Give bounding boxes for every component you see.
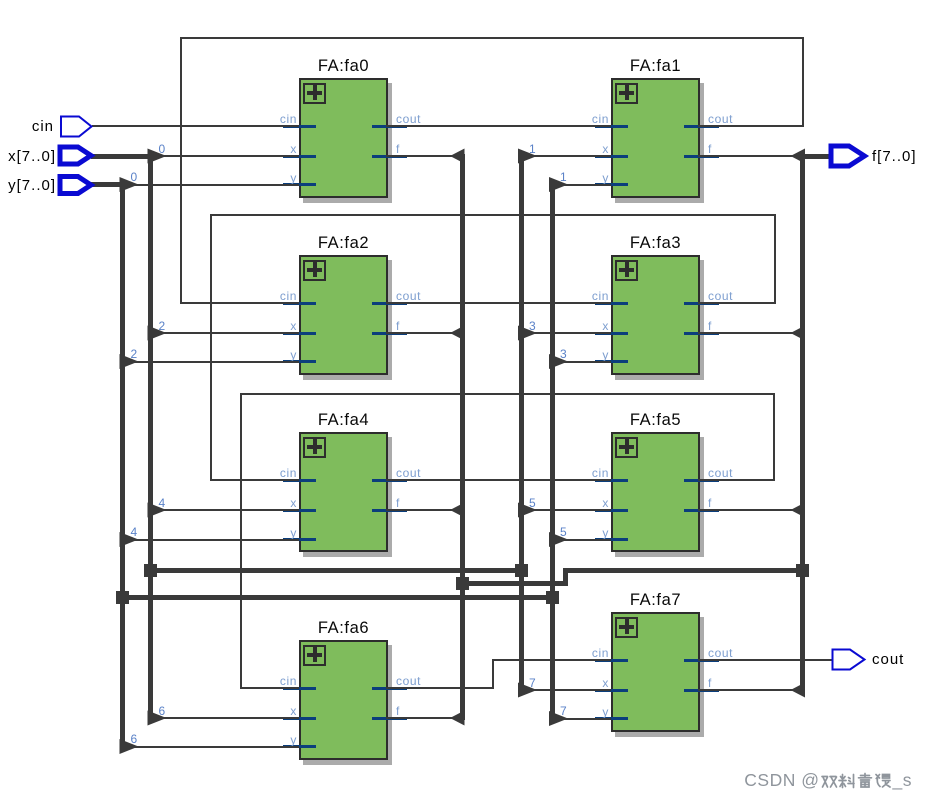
FA:fa4 pin label f <box>396 496 400 510</box>
bus: f horizontal link left part <box>460 581 569 586</box>
FA:fa3 pin x stub <box>595 332 628 335</box>
junction arrow x[6] <box>148 711 167 726</box>
junction: y bus right T <box>546 591 559 604</box>
net label y[3] <box>560 347 567 361</box>
pin label x[7..0] <box>8 149 56 164</box>
junction: x bus T <box>144 564 157 577</box>
wire: carry1 top segment <box>180 37 804 39</box>
junction arrow y[5] <box>549 532 568 547</box>
FA:fa4 pin label cin <box>280 466 297 480</box>
FA:fa7 pin label f <box>708 676 712 690</box>
FA:fa0 pin y stub <box>283 183 316 186</box>
FA:fa5 pin label cout <box>708 466 733 480</box>
wire: fa2.f to f collector <box>386 332 462 334</box>
wire: cin pin to fa0.cin <box>92 125 299 127</box>
FA:fa0 pin label cout <box>396 112 421 126</box>
FA:fa6 pin label x <box>290 704 297 718</box>
wire: carry6 to fa7.cin <box>492 659 611 661</box>
wire: f bus to f[7..0] pin (thick) <box>802 154 831 159</box>
FA:fa3 pin y stub <box>595 360 628 363</box>
bus: x[7..0] left vertical <box>148 154 153 721</box>
FA:fa0 adder + icon <box>303 83 326 104</box>
FA:fa3 adder + icon <box>615 260 638 281</box>
wire: fa7.cout to cout pin <box>698 659 833 661</box>
wire: x[7..0] pin to x bus junction (thick) <box>91 154 150 159</box>
FA:fa7 pin label cout <box>708 646 733 660</box>
net label y[2] <box>131 347 138 361</box>
wire: carry6 riser <box>492 659 494 689</box>
FA:fa0 pin x stub <box>283 155 316 158</box>
wire: fa0.cout to fa1.cin <box>386 125 611 127</box>
wire: carry3 left drop <box>210 214 212 481</box>
bus: x[7..0] right vertical <box>519 154 524 693</box>
wire: y[7] tap to fa7.y <box>552 718 611 720</box>
full adder FA:fa4 <box>299 432 388 552</box>
FA:fa1 adder + icon <box>615 83 638 104</box>
net label x[0] <box>159 142 166 156</box>
FA:fa2 pin y stub <box>283 360 316 363</box>
FA:fa2 pin label y <box>290 348 297 362</box>
FA:fa6 pin label cout <box>396 674 421 688</box>
FA:fa2 adder + icon <box>303 260 326 281</box>
FA:fa7 pin cout stub <box>684 659 719 662</box>
junction arrow f[4] <box>450 503 465 518</box>
bus: f horizontal link jog <box>563 568 568 587</box>
FA:fa7 pin label cin <box>592 646 609 660</box>
FA:fa1 pin x stub <box>595 155 628 158</box>
FA:fa1 pin cin stub <box>595 125 628 128</box>
FA:fa6 pin label f <box>396 704 400 718</box>
FA:fa7 pin label y <box>602 705 609 719</box>
input pin cin <box>61 117 92 137</box>
junction arrow y[7] <box>549 711 568 726</box>
wire: carry3 top segment <box>210 214 776 216</box>
output pin cout <box>833 650 865 670</box>
wire: fa1.f to f bus <box>698 155 803 157</box>
FA:fa1 title <box>630 57 681 76</box>
FA:fa4 adder + icon <box>303 437 326 458</box>
bus: x[7..0] horizontal link <box>148 568 524 573</box>
FA:fa6 pin f stub <box>372 717 407 720</box>
junction arrow x[3] <box>518 326 537 341</box>
FA:fa3 pin label x <box>602 319 609 333</box>
net label x[6] <box>159 704 166 718</box>
net label y[6] <box>131 732 138 746</box>
bus: y[7..0] right vertical <box>550 183 555 720</box>
bus: f horizontal link right part <box>563 568 805 573</box>
junction: x bus right T <box>515 564 528 577</box>
FA:fa6 pin label cin <box>280 674 297 688</box>
FA:fa7 pin x stub <box>595 689 628 692</box>
FA:fa4 title <box>318 411 369 430</box>
FA:fa6 adder + icon <box>303 645 326 666</box>
net label x[1] <box>529 142 536 156</box>
wire: fa1.cout riser <box>802 37 804 126</box>
FA:fa2 pin x stub <box>283 332 316 335</box>
FA:fa3 pin cin stub <box>595 302 628 305</box>
FA:fa7 pin cin stub <box>595 659 628 662</box>
net label x[3] <box>529 319 536 333</box>
FA:fa6 title <box>318 619 369 638</box>
net label y[5] <box>560 525 567 539</box>
FA:fa5 pin f stub <box>684 509 719 512</box>
FA:fa6 pin cin stub <box>283 687 316 690</box>
junction arrow f[1] <box>791 149 806 164</box>
FA:fa4 pin x stub <box>283 509 316 512</box>
wire: fa1.cout right segment <box>698 125 804 127</box>
FA:fa0 pin label cin <box>280 112 297 126</box>
FA:fa5 pin label x <box>602 496 609 510</box>
wire: x[1] tap to fa1.x <box>521 155 611 157</box>
pin label y[7..0] <box>8 178 56 193</box>
wire: y[7..0] pin to y bus junction (thick) <box>91 182 124 187</box>
FA:fa4 pin label x <box>290 496 297 510</box>
junction arrow x[5] <box>518 503 537 518</box>
wire: fa6.f to f collector <box>386 717 462 719</box>
FA:fa5 pin label cin <box>592 466 609 480</box>
junction arrow x[7] <box>518 683 537 698</box>
FA:fa1 pin y stub <box>595 183 628 186</box>
junction arrow x[1] <box>518 149 537 164</box>
FA:fa2 pin cout stub <box>372 302 407 305</box>
FA:fa3 pin label y <box>602 348 609 362</box>
FA:fa2 pin label cin <box>280 289 297 303</box>
wire: y[1] tap to fa1.y <box>552 184 611 186</box>
wire: fa0.f to f collector <box>386 155 462 157</box>
junction arrow f[2] <box>450 326 465 341</box>
junction: y bus T <box>116 591 129 604</box>
junction arrow f[3] <box>791 326 806 341</box>
wire: carry1 to fa2.cin <box>180 302 299 304</box>
FA:fa7 adder + icon <box>615 617 638 638</box>
wire: x[2] tap to fa2.x <box>151 332 300 334</box>
full adder FA:fa5 <box>611 432 700 552</box>
junction arrow y[1] <box>549 177 568 192</box>
wire: y[5] tap to fa5.y <box>552 539 611 541</box>
FA:fa5 pin cin stub <box>595 479 628 482</box>
FA:fa1 pin cout stub <box>684 125 719 128</box>
junction arrow y[2] <box>120 354 139 369</box>
wire: y[3] tap to fa3.y <box>552 361 611 363</box>
FA:fa4 pin cout stub <box>372 479 407 482</box>
FA:fa5 pin x stub <box>595 509 628 512</box>
junction arrow f[5] <box>791 503 806 518</box>
pin label cout <box>872 652 904 667</box>
wire: carry1 left drop <box>180 37 182 303</box>
FA:fa0 pin label y <box>290 171 297 185</box>
junction: f bus right T <box>796 564 809 577</box>
output pin f[7..0] <box>831 146 865 166</box>
wire: fa2.cout to fa3.cin <box>386 302 611 304</box>
wire: x[3] tap to fa3.x <box>521 332 611 334</box>
FA:fa5 pin label y <box>602 526 609 540</box>
FA:fa1 pin f stub <box>684 155 719 158</box>
junction arrow y[3] <box>549 354 568 369</box>
FA:fa2 pin cin stub <box>283 302 316 305</box>
FA:fa2 title <box>318 234 369 253</box>
FA:fa6 pin label y <box>290 733 297 747</box>
FA:fa2 pin label f <box>396 319 400 333</box>
watermark CSDN @shuangliao-dulang_s <box>744 770 912 791</box>
wire: fa3.cout right segment <box>698 302 776 304</box>
wire: fa3.cout riser <box>774 214 776 304</box>
FA:fa6 pin x stub <box>283 717 316 720</box>
wire: fa5.f to f bus <box>698 509 803 511</box>
FA:fa2 pin label cout <box>396 289 421 303</box>
wire: x[0] tap to fa0.x <box>151 155 300 157</box>
wire: fa5.cout right segment <box>698 479 775 481</box>
junction arrow f[7] <box>791 683 806 698</box>
full adder FA:fa3 <box>611 255 700 375</box>
bus: f left collector vertical <box>460 154 465 721</box>
FA:fa2 pin label x <box>290 319 297 333</box>
wire: y[0] tap to fa0.y <box>123 184 300 186</box>
FA:fa5 pin cout stub <box>684 479 719 482</box>
FA:fa1 pin label f <box>708 142 712 156</box>
FA:fa0 pin cout stub <box>372 125 407 128</box>
full adder FA:fa7 <box>611 612 700 732</box>
junction arrow y[6] <box>120 739 139 754</box>
full adder FA:fa0 <box>299 78 388 198</box>
junction: f bus T <box>456 577 469 590</box>
wire: y[4] tap to fa4.y <box>123 539 300 541</box>
wire: x[6] tap to fa6.x <box>151 717 300 719</box>
full adder FA:fa6 <box>299 640 388 760</box>
wire: x[4] tap to fa4.x <box>151 509 300 511</box>
junction arrow x[0] <box>148 149 167 164</box>
bus: y[7..0] left vertical <box>120 183 125 749</box>
net label x[5] <box>529 496 536 510</box>
net label y[1] <box>560 170 567 184</box>
FA:fa0 pin cin stub <box>283 125 316 128</box>
junction arrow x[4] <box>148 503 167 518</box>
FA:fa3 title <box>630 234 681 253</box>
wire: x[7] tap to fa7.x <box>521 689 611 691</box>
wire: y[6] tap to fa6.y <box>123 746 300 748</box>
net label x[2] <box>159 319 166 333</box>
FA:fa7 title <box>630 591 681 610</box>
FA:fa5 pin label f <box>708 496 712 510</box>
FA:fa5 title <box>630 411 681 430</box>
wire: fa3.f to f bus <box>698 332 803 334</box>
FA:fa7 pin y stub <box>595 717 628 720</box>
wire: fa6.cout right segment <box>386 687 494 689</box>
FA:fa1 pin label y <box>602 171 609 185</box>
FA:fa3 pin cout stub <box>684 302 719 305</box>
wire: fa4.f to f collector <box>386 509 462 511</box>
wire: y[2] tap to fa2.y <box>123 361 300 363</box>
FA:fa4 pin y stub <box>283 538 316 541</box>
FA:fa1 pin label cout <box>708 112 733 126</box>
FA:fa6 pin cout stub <box>372 687 407 690</box>
net label y[7] <box>560 704 567 718</box>
FA:fa5 pin y stub <box>595 538 628 541</box>
FA:fa3 pin label f <box>708 319 712 333</box>
FA:fa4 pin label cout <box>396 466 421 480</box>
FA:fa6 pin y stub <box>283 745 316 748</box>
FA:fa7 pin f stub <box>684 689 719 692</box>
bus: f right vertical to f[7..0] pin <box>800 154 805 693</box>
junction arrow f[6] <box>450 711 465 726</box>
FA:fa0 pin label x <box>290 142 297 156</box>
pin label cin <box>32 119 54 134</box>
FA:fa0 pin label f <box>396 142 400 156</box>
net label x[7] <box>529 676 536 690</box>
wire: fa4.cout to fa5.cin <box>386 479 611 481</box>
FA:fa0 title <box>318 57 369 76</box>
FA:fa0 pin f stub <box>372 155 407 158</box>
wire: carry5 left drop <box>240 393 242 689</box>
FA:fa3 pin label cout <box>708 289 733 303</box>
input pin x[7..0] <box>60 147 91 164</box>
junction arrow x[2] <box>148 326 167 341</box>
FA:fa3 pin f stub <box>684 332 719 335</box>
net label y[4] <box>131 525 138 539</box>
FA:fa7 pin label x <box>602 676 609 690</box>
FA:fa2 pin f stub <box>372 332 407 335</box>
junction arrow y[4] <box>120 532 139 547</box>
wire: carry5 top segment <box>240 393 776 395</box>
FA:fa1 pin label cin <box>592 112 609 126</box>
full adder FA:fa1 <box>611 78 700 198</box>
junction arrow f[0] <box>450 149 465 164</box>
pin label f[7..0] <box>872 149 917 164</box>
FA:fa4 pin label y <box>290 526 297 540</box>
bus: y[7..0] horizontal link <box>120 595 555 600</box>
junction arrow y[0] <box>120 177 139 192</box>
wire: carry3 to fa4.cin <box>210 479 299 481</box>
FA:fa5 adder + icon <box>615 437 638 458</box>
FA:fa4 pin f stub <box>372 509 407 512</box>
wire: fa7.f to f bus <box>698 689 803 691</box>
FA:fa3 pin label cin <box>592 289 609 303</box>
input pin y[7..0] <box>60 177 91 194</box>
wire: x[5] tap to fa5.x <box>521 509 611 511</box>
FA:fa1 pin label x <box>602 142 609 156</box>
wire: carry5 to fa6.cin <box>240 687 300 689</box>
net label y[0] <box>131 170 138 184</box>
full adder FA:fa2 <box>299 255 388 375</box>
net label x[4] <box>159 496 166 510</box>
FA:fa4 pin cin stub <box>283 479 316 482</box>
wire: fa5.cout riser <box>773 393 775 481</box>
